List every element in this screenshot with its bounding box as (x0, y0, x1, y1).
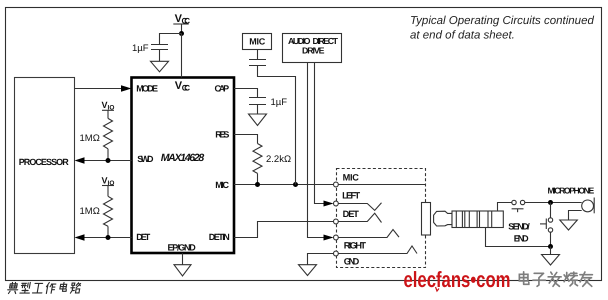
ground under microphone (560, 220, 578, 230)
junction dot DET (106, 235, 111, 240)
arrow into PROCESSOR (SWD) (75, 157, 85, 163)
node VCC supply (173, 24, 188, 36)
wire R3 to MIC net (257, 173, 259, 184)
svg-text:PROCESSOR: PROCESSOR (19, 157, 69, 167)
wire mic node down (550, 203, 552, 218)
ground jack GND (299, 265, 317, 276)
svg-text:DETIN: DETIN (209, 232, 230, 242)
svg-text:MIC: MIC (343, 173, 360, 183)
svg-text:LEFT: LEFT (342, 191, 360, 201)
wire jack MIC line right (338, 184, 425, 186)
svg-text:1MΩ: 1MΩ (80, 133, 100, 144)
resistor R1 1Mohm (104, 118, 113, 148)
wire MIC box to C3 (257, 50, 259, 60)
AUDIO DIRECT DRIVE box (283, 34, 342, 63)
wire C3 to MIC net (258, 66, 296, 185)
microphone MK1 (582, 198, 595, 214)
ground under C2 (249, 114, 267, 126)
arrow into LEFT terminal (324, 201, 334, 207)
junction dot MIC-micbox (293, 182, 298, 187)
char dian (7, 283, 19, 294)
svg-text:CAP: CAP (215, 83, 230, 93)
svg-text:DRIVE: DRIVE (302, 45, 325, 55)
wire S2 to ground node (550, 232, 552, 246)
arrow into RIGHT terminal (324, 235, 334, 241)
svg-text:MIC: MIC (249, 37, 266, 47)
svg-text:MODE: MODE (136, 83, 158, 93)
svg-text:AUDIO: AUDIO (288, 36, 311, 46)
wire RIGHT feed (308, 63, 325, 238)
terminal MIC (334, 182, 339, 187)
wire jack RIGHT contact (338, 230, 399, 238)
ground under S2 (542, 255, 560, 266)
char zuo (45, 283, 56, 294)
wire R1 to SWD (107, 149, 109, 161)
watermark elecfans.com (404, 267, 511, 292)
processor U2 (15, 78, 75, 254)
wire DET (83, 237, 132, 239)
resistor R2 1Mohm (104, 196, 113, 226)
svg-text:END: END (514, 234, 529, 244)
svg-text:1µF: 1µF (132, 43, 149, 54)
wire jack GND contact (338, 246, 417, 254)
svg-text:CC: CC (182, 83, 191, 92)
char shao (564, 272, 577, 286)
switch S1 contact A (512, 200, 516, 204)
node VIO 2 (102, 186, 114, 197)
svg-text:MIC: MIC (215, 180, 229, 190)
svg-text:SEND/: SEND/ (508, 222, 530, 232)
switch S1 actuator (512, 209, 524, 212)
title (410, 15, 594, 41)
capacitor C1 1uF (151, 45, 168, 62)
svg-text:1MΩ: 1MΩ (80, 206, 100, 217)
jack breakout dashed box (337, 169, 426, 268)
svg-text:MAX14628: MAX14628 (161, 152, 205, 164)
svg-text:elecfans•com: elecfans•com (404, 267, 511, 292)
svg-text:RIGHT: RIGHT (344, 240, 367, 250)
ground EP/GND (174, 253, 191, 276)
svg-text:Typical Operating Circuits con: Typical Operating Circuits continued (410, 15, 594, 27)
svg-text:EP/GND: EP/GND (168, 243, 197, 253)
wire SWD (83, 160, 132, 162)
capacitor C2 1uF (249, 98, 266, 115)
svg-text:2.2kΩ: 2.2kΩ (266, 154, 291, 165)
switch S2 actuator (540, 219, 546, 230)
wire DETIN to DET terminal (234, 222, 334, 238)
svg-text:RES: RES (215, 130, 229, 140)
terminal RIGHT (334, 235, 339, 240)
capacitor C3 (249, 60, 266, 66)
plug P1 tip (434, 211, 452, 226)
IC U1 MAX14628 body (132, 78, 235, 254)
terminal LEFT (334, 201, 339, 206)
wire ground node stub (550, 247, 552, 255)
wire VCC to IC (181, 34, 183, 78)
caption chinese: dian xing gong zuo dian lu (typical operating circuit) (7, 283, 81, 294)
wire CAP pin (234, 89, 258, 98)
wire jack GND to ground (308, 254, 334, 265)
char xing (20, 283, 31, 294)
junction dot mic node (548, 200, 553, 205)
svg-text:CC: CC (182, 16, 191, 25)
wire MIC net (234, 184, 334, 186)
junction dot MIC-R3 (255, 182, 260, 187)
arrow into PROCESSOR (DET) (75, 234, 85, 240)
wire R2 to DET (107, 226, 109, 237)
switch S2 contact A (548, 218, 552, 222)
wire plug to SEND/END switch (498, 203, 512, 212)
wire microphone to ground (569, 211, 582, 221)
wire VCC to C1 (160, 34, 182, 45)
svg-text:GND: GND (344, 256, 360, 266)
switch S1 contact B (520, 200, 524, 204)
char you (580, 272, 593, 286)
arrow into MODE (121, 85, 132, 91)
svg-text:SWD: SWD (137, 154, 154, 164)
svg-text:MICROPHONE: MICROPHONE (548, 185, 595, 195)
switch S2 contact B (548, 228, 552, 232)
char gong (32, 283, 43, 293)
jack receptacle J1 (422, 203, 431, 236)
resistor R3 2.2kohm (253, 144, 262, 174)
char zi (533, 273, 546, 286)
node VIO 1 (102, 110, 114, 118)
wire LEFT feed (315, 63, 325, 204)
ground under C1 (151, 61, 169, 72)
terminal GND (334, 251, 339, 256)
svg-text:DET: DET (343, 209, 360, 219)
wire jack LEFT contact (338, 203, 381, 211)
junction dot ground node (548, 244, 553, 249)
watermark chinese: dian zi fa shao you (519, 272, 592, 287)
junction dot SWD (106, 158, 111, 163)
arrowheads (75, 85, 334, 240)
char fa (548, 272, 561, 286)
svg-text:DET: DET (136, 232, 151, 242)
component text labels (19, 13, 595, 266)
char dian2 (59, 283, 67, 292)
wire jack DET contact (338, 213, 381, 222)
svg-text:at end of data sheet.: at end of data sheet. (410, 29, 515, 41)
char dian3 (519, 272, 528, 285)
wire MODE (75, 88, 124, 90)
MIC box (243, 34, 272, 50)
wire plug sleeve to ground node (486, 228, 551, 247)
wire S1 to mic node (525, 202, 582, 204)
terminal DET (334, 219, 339, 224)
svg-text:1µF: 1µF (271, 97, 288, 108)
plug P1 body (452, 211, 503, 228)
wire RES pin (234, 135, 258, 144)
char lu (70, 283, 81, 293)
svg-text:DIRECT: DIRECT (313, 36, 339, 46)
